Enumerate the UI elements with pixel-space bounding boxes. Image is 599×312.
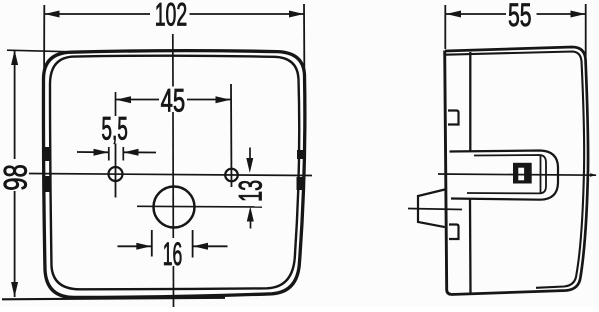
svg-text:16: 16 xyxy=(163,236,183,272)
svg-text:98: 98 xyxy=(0,164,33,191)
svg-text:55: 55 xyxy=(508,0,532,33)
svg-text:5,5: 5,5 xyxy=(101,111,128,147)
svg-text:45: 45 xyxy=(161,83,186,119)
svg-text:13: 13 xyxy=(232,180,268,202)
svg-text:102: 102 xyxy=(155,0,188,32)
